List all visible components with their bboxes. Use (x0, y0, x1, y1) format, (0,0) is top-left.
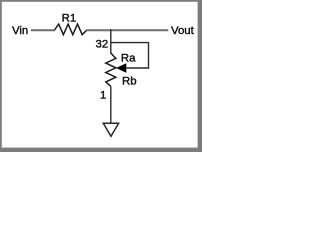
wiper short loop wire (111, 43, 149, 68)
ground (103, 123, 118, 136)
resistor R1 (55, 24, 87, 35)
node 32 stem wire down from main wire (110, 29, 112, 53)
potentiometer element Ra/Rb (106, 53, 116, 86)
wire from R1 to Vout (87, 29, 169, 31)
svg-text:1: 1 (100, 90, 106, 102)
svg-text:R1: R1 (62, 13, 77, 25)
svg-text:Vin: Vin (12, 25, 28, 37)
wiper arrow (116, 63, 126, 73)
border frame (0, 0, 202, 152)
wire from Vin to R1 (31, 29, 55, 31)
svg-text:Rb: Rb (122, 76, 137, 88)
svg-text:Vout: Vout (171, 25, 195, 37)
svg-text:32: 32 (96, 39, 109, 51)
svg-text:Ra: Ra (121, 53, 136, 65)
wire from pot to ground (110, 86, 112, 123)
